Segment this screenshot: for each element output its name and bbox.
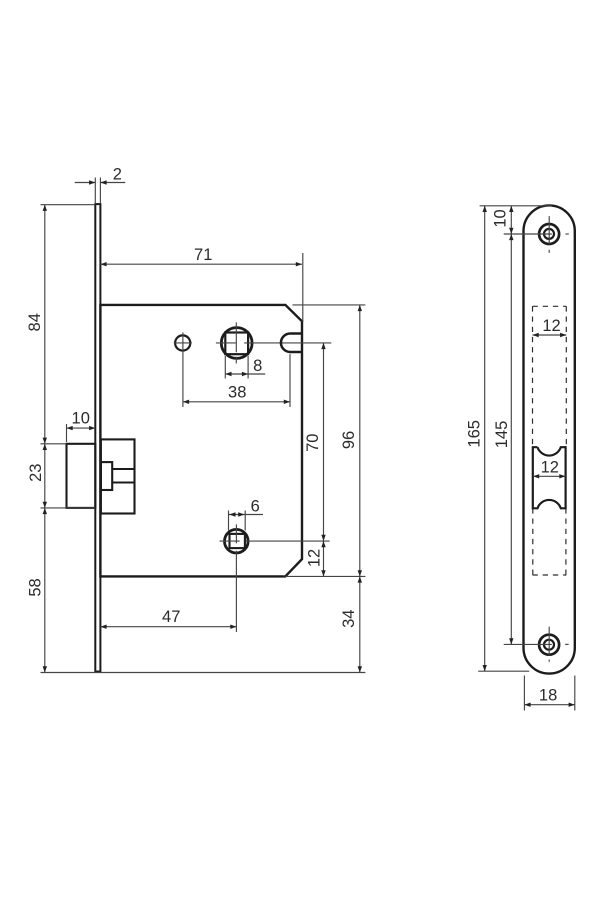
dim 12 arrow top	[321, 541, 325, 547]
spindle hole circle	[221, 328, 252, 359]
dim 38 arrow left	[183, 400, 189, 404]
svg-text:165: 165	[466, 420, 484, 448]
svg-text:71: 71	[194, 246, 212, 264]
svg-text:96: 96	[340, 431, 358, 449]
dim 71 arrow left	[100, 262, 106, 266]
dim 70 arrow bottom	[321, 535, 325, 541]
dim 10 text	[492, 209, 510, 227]
dim 12 middle arrow right	[559, 474, 565, 478]
dim 8 extension right	[247, 356, 249, 379]
dim 8 extension left	[224, 356, 226, 379]
svg-text:23: 23	[27, 464, 45, 482]
dashed region right side	[565, 306, 567, 447]
svg-text:10: 10	[492, 209, 510, 227]
dim 70 arrow top	[321, 343, 325, 349]
spindle vertical centerline	[235, 322, 237, 352]
svg-text:38: 38	[228, 384, 246, 402]
top screw crosshair horizontal dash	[565, 233, 568, 235]
bottom screw crosshair horizontal	[504, 643, 552, 645]
svg-text:8: 8	[253, 357, 262, 375]
latch head (outside faceplate)	[67, 444, 96, 508]
dim 2 line right part	[100, 182, 125, 184]
dim 10 line	[510, 206, 512, 234]
dim 34 text	[340, 610, 358, 628]
top extension line	[480, 205, 552, 207]
dim 34 arrow top	[358, 576, 362, 582]
dim 34 line	[359, 576, 361, 672]
dim 10 arrow left	[67, 426, 73, 430]
bottom thin extension of case	[285, 575, 365, 577]
dim 84 line	[44, 205, 46, 444]
dim 10 line	[67, 427, 96, 429]
svg-text:10: 10	[72, 410, 90, 428]
dim 58 arrow top	[43, 508, 47, 514]
dim 84 text	[26, 313, 44, 331]
latch tail bar bottom line	[112, 481, 134, 483]
dim 6 arrow left	[229, 512, 235, 516]
dim 145 line	[510, 234, 512, 644]
dim 34 arrow bottom	[358, 666, 362, 672]
bottom screw crosshair horizontal dash	[565, 643, 568, 645]
dim 12 arrow bottom	[321, 570, 325, 576]
dim 12 middle arrow left	[533, 474, 539, 478]
bottom screw hole outer	[539, 635, 559, 655]
dim 12 upper arrow left	[533, 333, 539, 337]
dim 2 arrow right	[100, 180, 106, 184]
dim 165 line	[484, 206, 486, 671]
svg-text:12: 12	[306, 549, 324, 567]
lock body outline	[100, 305, 302, 577]
dim 10 arrow bottom	[509, 228, 513, 234]
svg-text:70: 70	[304, 434, 322, 452]
svg-text:12: 12	[541, 459, 559, 477]
dim 38 arrow right	[284, 400, 290, 404]
faceplate stadium outline	[524, 205, 575, 673]
dim 165 arrow top	[483, 206, 487, 212]
dim 12 upper arrow right	[560, 333, 566, 337]
dim 58 line	[44, 508, 46, 673]
top screw hole outer	[539, 224, 559, 244]
dim 145 arrow top	[509, 234, 513, 240]
lower hole vertical centerline / extension to 47 dim	[235, 524, 237, 543]
dim 23 arrow bottom	[43, 502, 47, 508]
dim 96 line	[359, 305, 361, 577]
extension latch top left	[41, 443, 67, 445]
bottom extension line	[478, 670, 529, 672]
dim 8 line	[225, 373, 265, 375]
svg-text:12: 12	[542, 317, 560, 335]
slot vertical centerline extension to 38 dim	[289, 354, 291, 407]
dashed region bottom	[533, 574, 567, 576]
dim 145 text	[493, 421, 511, 449]
dim 6 extension left	[228, 511, 230, 531]
dim 165 text	[466, 420, 484, 448]
dim 12 middle line	[533, 475, 566, 477]
faceplate edge view	[95, 204, 100, 671]
dim 84 arrow top	[43, 205, 47, 211]
bottom extension line	[41, 672, 366, 674]
dim 8 arrow left	[225, 372, 231, 376]
dim 71 line	[100, 263, 302, 265]
lower hole horizontal centerline to 12 dim	[220, 540, 240, 542]
spindle square hole	[225, 333, 248, 355]
dim 165 arrow bottom	[483, 665, 487, 671]
svg-text:6: 6	[251, 498, 260, 516]
dim 10 arrow top	[509, 206, 513, 212]
top screw hole inner	[544, 229, 554, 239]
dashed cutout region	[533, 305, 567, 307]
dim 145 arrow bottom	[509, 638, 513, 644]
dim 23 line	[44, 444, 46, 508]
dim 12 (left view) line	[323, 541, 325, 576]
top extension line for 84	[41, 204, 96, 206]
dashed region left side	[532, 306, 534, 447]
dim 47 arrow left	[100, 625, 106, 629]
extension latch bottom	[41, 507, 96, 509]
dim 10 arrow right	[89, 426, 95, 430]
dim 18 line	[524, 704, 574, 706]
bottom screw hole inner	[544, 640, 554, 650]
dim 58 text	[27, 578, 45, 596]
dim 12 upper line	[533, 334, 567, 336]
dim 2 line left part	[75, 182, 96, 184]
dim 84 arrow bottom	[43, 438, 47, 444]
dim 8 arrow right	[242, 372, 248, 376]
dim 2 extension overshoot above faceplate	[94, 178, 96, 204]
dim 96 arrow top	[358, 305, 362, 311]
dim 58 arrow bottom	[43, 666, 47, 672]
dim 96 arrow bottom	[358, 570, 362, 576]
latch cutout with concave notches	[533, 447, 566, 508]
dim 6 extension right	[244, 511, 246, 531]
bottom screw crosshair vertical	[548, 627, 550, 656]
dim 6 line	[229, 514, 264, 516]
pilot hole crosshair horizontal	[174, 342, 192, 344]
dim 71 right extension line	[302, 253, 304, 322]
dim 38 line	[183, 401, 290, 403]
lower square hole circle	[225, 529, 249, 553]
svg-text:84: 84	[26, 313, 44, 331]
latch tail small rect	[101, 462, 112, 490]
svg-text:145: 145	[493, 421, 511, 449]
edge slot (D-shaped cutout at case edge)	[281, 334, 302, 353]
dim 10 left extension line	[66, 424, 68, 442]
spindle horizontal centerline to 70 dim	[216, 342, 236, 344]
dim 47 line	[100, 626, 236, 628]
svg-text:34: 34	[340, 610, 358, 628]
latch tail bar top line	[112, 468, 134, 470]
pilot hole circle	[175, 335, 190, 350]
top screw crosshair horizontal	[504, 233, 552, 235]
dim 23 arrow top	[43, 444, 47, 450]
top extension for 96	[293, 304, 366, 306]
dim 2 arrow left	[89, 180, 95, 184]
svg-text:47: 47	[162, 608, 180, 626]
svg-text:58: 58	[27, 578, 45, 596]
dim 18 extension right	[574, 676, 576, 711]
svg-text:2: 2	[113, 166, 122, 184]
dim 23 text	[27, 464, 45, 482]
svg-text:18: 18	[539, 687, 557, 705]
top screw crosshair vertical dash	[548, 250, 550, 253]
dim 71 arrow right	[296, 262, 302, 266]
dim 18 extension left	[523, 676, 525, 711]
top screw crosshair vertical	[548, 216, 550, 244]
dim 18 arrow left	[524, 703, 530, 707]
dim 70 line	[323, 343, 325, 541]
dim 96 text	[340, 431, 358, 449]
pilot hole vertical centerline / extension to 38 dim	[182, 332, 184, 407]
dim 70 text	[304, 434, 322, 452]
dim 47 arrow right	[230, 625, 236, 629]
lower square hole square	[230, 534, 245, 548]
latch body inside case	[101, 439, 135, 513]
dim 6 arrow right	[238, 512, 244, 516]
dim 18 arrow right	[569, 703, 575, 707]
dim 12 (left view) text	[306, 549, 324, 567]
bottom screw crosshair vertical dash	[548, 660, 550, 662]
